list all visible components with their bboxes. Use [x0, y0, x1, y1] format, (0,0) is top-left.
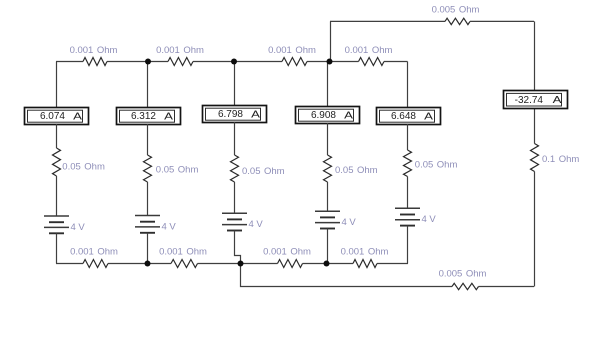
resistor R7 0.001 Ohm (top bus) [83, 58, 107, 66]
resistor R3 0.05 Ohm [231, 155, 239, 182]
resistor R12 0.001 Ohm (bottom bus) [171, 260, 198, 268]
node N2 junction dot [231, 59, 237, 65]
svg-text:4 V: 4 V [342, 217, 357, 228]
wire from node N3 up to top 0.005 link [330, 21, 332, 61]
battery V2 4 V [135, 216, 160, 233]
svg-text:0.05Ohm: 0.05Ohm [156, 165, 199, 176]
node N4 junction dot [145, 261, 151, 267]
ammeter M4 reading 6.908 A [296, 107, 360, 124]
resistor R14 0.001 Ohm (bottom bus) [353, 260, 377, 268]
svg-text:0.05Ohm: 0.05Ohm [62, 162, 105, 173]
battery V1 4 V [44, 216, 69, 233]
battery V4 4 V [315, 211, 340, 228]
resistor R11 0.001 Ohm (bottom bus) [83, 260, 108, 268]
wire branch 2 (ammeter M2 to resistor R2) [147, 124, 149, 155]
resistor R8 0.001 Ohm (top bus) [168, 58, 193, 66]
wire branch 5 bottom (battery V5 to bottom bus) [407, 226, 409, 264]
wire bottom 0.005 link right segment [479, 286, 535, 288]
svg-text:0.05Ohm: 0.05Ohm [335, 165, 378, 176]
svg-text:6.312: 6.312 [131, 111, 156, 122]
wire top 0.005 link right segment [470, 20, 534, 22]
wire branch 4 top (bus to ammeter M4) [327, 62, 329, 107]
wire branch 1 (ammeter M1 to resistor R1) [56, 124, 58, 148]
resistor R5 0.05 Ohm [404, 150, 412, 177]
wire from node N6 down to bottom 0.005 link [241, 264, 453, 287]
wire branch 1 bottom (battery V1 to bottom bus) [56, 233, 58, 263]
svg-text:0.1Ohm: 0.1Ohm [542, 154, 579, 165]
ammeter M2 reading 6.312 A [117, 108, 181, 125]
svg-text:6.798: 6.798 [218, 109, 243, 120]
svg-text:0.05Ohm: 0.05Ohm [242, 166, 285, 177]
svg-text:A: A [164, 111, 173, 122]
svg-text:4 V: 4 V [422, 214, 437, 225]
wire bottom bus between R12 and R13 [198, 263, 278, 265]
wire branch 3 bottom with jog (battery V3 to node N6) [235, 231, 241, 264]
svg-text:6.908: 6.908 [311, 110, 336, 121]
svg-text:0.05Ohm: 0.05Ohm [415, 160, 458, 171]
wire right column upper (top link to ammeter M6) [534, 21, 536, 90]
wire branch 2 (resistor R2 to battery V2) [147, 182, 149, 216]
wire branch 3 (ammeter M3 to resistor R3) [234, 122, 236, 155]
wire branch 2 bottom (battery V2 to bottom bus) [147, 233, 149, 264]
wire bottom bus between R13 and R14 [303, 263, 354, 265]
wire right column lower (R6 to bottom link) [534, 172, 536, 287]
wire branch 2 top (bus to ammeter M2) [147, 62, 149, 108]
ammeter M3 reading 6.798 A [203, 106, 267, 123]
resistor R4 0.05 Ohm [324, 155, 332, 182]
wire branch 4 bottom (battery V4 to bottom bus) [327, 229, 329, 264]
wire top 0.005 link left segment [330, 20, 445, 22]
svg-text:4 V: 4 V [249, 219, 264, 230]
wire bottom bus between R11 and R12 [108, 263, 171, 265]
wire branch 5 (resistor R5 to battery V5) [407, 177, 409, 209]
svg-text:A: A [344, 110, 353, 121]
ammeter M6 reading -32.74 A [504, 91, 568, 109]
svg-text:4 V: 4 V [162, 221, 177, 232]
ammeter M1 reading 6.074 A [25, 108, 89, 125]
wire branch 5 (ammeter M5 to resistor R5) [407, 124, 409, 150]
resistor R16 0.005 Ohm (bottom link) [452, 283, 479, 289]
wire top bus between R8 and R9 [193, 61, 282, 63]
svg-text:A: A [553, 94, 562, 105]
resistor R2 0.05 Ohm [144, 155, 152, 182]
svg-text:-32.74: -32.74 [515, 95, 544, 106]
wire branch 3 (resistor R3 to battery V3) [234, 182, 236, 213]
resistor R1 0.05 Ohm [53, 148, 61, 176]
svg-text:A: A [424, 111, 433, 122]
ammeter M5 reading 6.648 A [377, 108, 441, 125]
wire bottom bus left [56, 263, 83, 265]
node N5 junction dot [324, 261, 330, 267]
resistor R15 0.005 Ohm (top link) [445, 18, 470, 24]
wire bottom bus right [377, 263, 408, 265]
wire top bus left [56, 61, 83, 63]
svg-text:6.074: 6.074 [40, 111, 65, 122]
node N1 junction dot [145, 59, 151, 65]
wire right column middle (M6 to R6) [534, 108, 536, 144]
svg-text:6.648: 6.648 [391, 111, 416, 122]
resistor R10 0.001 Ohm (top bus) [359, 58, 385, 66]
battery V3 4 V [222, 213, 247, 230]
wire branch 4 (resistor R4 to battery V4) [327, 182, 329, 211]
resistor R6 0.1 Ohm [531, 144, 539, 172]
svg-text:4 V: 4 V [71, 222, 86, 233]
wire branch 1 (resistor R1 to battery V1) [56, 176, 58, 216]
wire top bus between R7 and R8 [107, 61, 168, 63]
wire branch 4 (ammeter M4 to resistor R4) [327, 123, 329, 155]
battery V5 4 V [395, 208, 420, 225]
wire branch 3 top (bus to ammeter M3) [234, 62, 236, 106]
resistor R9 0.001 Ohm (top bus) [282, 58, 307, 66]
svg-text:A: A [73, 111, 82, 122]
wire top bus right [384, 61, 408, 63]
wire branch 5 top (bus to ammeter M5) [407, 62, 409, 108]
node N3 junction dot [327, 59, 333, 65]
resistor R13 0.001 Ohm (bottom bus) [278, 260, 303, 268]
wire branch 1 top (bus to ammeter M1) [56, 62, 58, 108]
node N6 junction dot [238, 261, 244, 267]
svg-text:A: A [251, 109, 260, 120]
wire top bus between R9 and R10 [307, 61, 359, 63]
